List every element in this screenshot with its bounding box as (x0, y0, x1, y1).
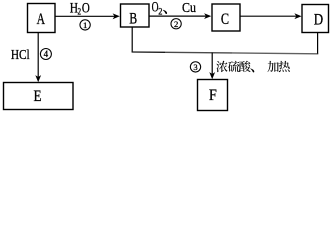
svg-text:D: D (314, 11, 323, 28)
wire horizontal middle (165, 51, 232, 54)
wire horizontal to D (232, 52, 318, 55)
label dun comma (250, 68, 254, 72)
box E (4, 83, 74, 110)
arrow 2 B to C (149, 15, 209, 17)
circled 3 (190, 62, 200, 72)
svg-text:C: C (221, 11, 229, 28)
circled 2 (171, 19, 181, 29)
label jia (267, 61, 278, 72)
label nong (216, 61, 227, 72)
label re (279, 61, 290, 72)
svg-text:A: A (37, 11, 46, 28)
box C (212, 4, 240, 31)
svg-text:Cu: Cu (182, 0, 196, 16)
svg-text:HCl: HCl (11, 47, 30, 62)
svg-text:2: 2 (158, 7, 162, 17)
wire B down (131, 27, 133, 52)
svg-text:2: 2 (78, 7, 82, 17)
label suan (239, 61, 250, 72)
arrow 3 junction to F (211, 53, 213, 78)
box D (302, 5, 329, 33)
svg-text:3: 3 (193, 62, 197, 72)
svg-text:O: O (82, 0, 90, 16)
box F (198, 80, 228, 111)
svg-text:F: F (209, 87, 217, 104)
wire horizontal from B (132, 51, 165, 53)
circled 1 (80, 20, 90, 30)
dun comma after O2 (163, 10, 167, 14)
label liu (228, 61, 240, 72)
svg-text:B: B (129, 11, 137, 28)
circled 4 (40, 49, 51, 60)
arrow C to D (240, 15, 300, 17)
box A (28, 4, 56, 33)
svg-text:2: 2 (174, 19, 178, 29)
arrow 1 A to B (55, 15, 118, 17)
arrow 4 A to E (37, 33, 39, 81)
svg-text:1: 1 (83, 20, 87, 30)
wire D down (317, 33, 319, 54)
box B (121, 4, 150, 27)
svg-text:4: 4 (44, 49, 49, 59)
svg-text:E: E (34, 88, 42, 105)
